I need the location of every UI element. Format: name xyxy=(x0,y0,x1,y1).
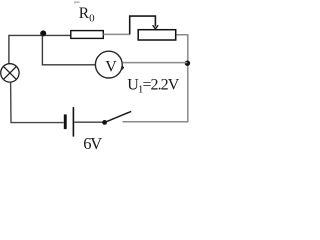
wire lamp bottom to battery (lower-left) xyxy=(11,82,64,122)
svg-text:6V: 6V xyxy=(83,134,102,151)
battery negative plate (short thick) xyxy=(64,114,67,129)
svg-text:U1=2.2V: U1=2.2V xyxy=(127,76,179,95)
switch S pivot dot xyxy=(102,120,107,125)
resistor R0 body xyxy=(71,31,104,39)
node A junction dot on top wire xyxy=(40,30,46,36)
wire from node A down to voltmeter left lead xyxy=(42,36,95,65)
wiper arrowhead xyxy=(153,25,159,29)
wiper lead (riser, top run, drop to arrow) xyxy=(130,16,156,34)
wire top-left L (left vertical + top horizontal to R0) xyxy=(9,35,71,64)
rheostat R body xyxy=(138,30,176,40)
wire switch fixed contact to bottom-right corner and up right side xyxy=(122,35,187,122)
svg-text:V: V xyxy=(105,59,117,76)
voltmeter right terminal tick xyxy=(122,66,124,70)
lamp L1 (circle with X) xyxy=(1,64,19,82)
stray faint mark top edge xyxy=(75,2,80,3)
node B junction dot on right wire xyxy=(185,61,190,66)
battery positive plate (long thin) xyxy=(72,107,74,137)
voltmeter U1 circle xyxy=(95,51,122,78)
svg-text:R0: R0 xyxy=(79,5,95,25)
wire R0 right lead to wiper riser xyxy=(103,33,130,35)
wire voltmeter right lead to node B xyxy=(123,62,188,64)
wire battery to switch pivot xyxy=(74,121,103,123)
switch S blade (open) xyxy=(105,111,132,122)
